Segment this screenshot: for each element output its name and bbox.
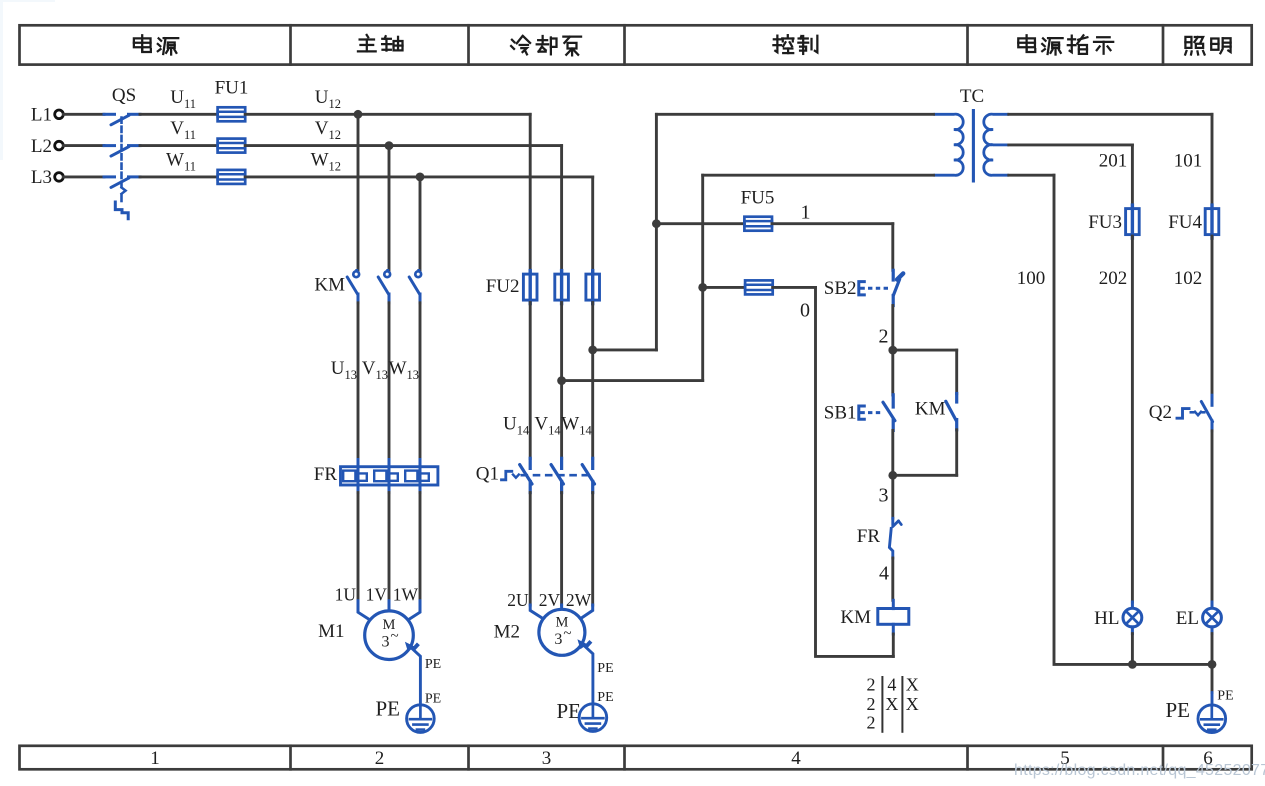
edge tint [0, 0, 3, 160]
wire phase rails [245, 113, 530, 116]
svg-text:FU1: FU1 [215, 78, 249, 99]
svg-text:1: 1 [150, 748, 160, 769]
wire FU2 drops [529, 114, 532, 271]
header band [20, 25, 1252, 64]
svg-text:3: 3 [554, 631, 562, 648]
wire [64, 144, 105, 147]
wire PE pigtail M2 [584, 646, 593, 704]
svg-text:3: 3 [542, 748, 552, 769]
node tap to TC primary top [588, 346, 597, 355]
svg-text:FR: FR [857, 526, 881, 547]
wire [529, 493, 532, 605]
wire 101/102 line [1211, 114, 1214, 207]
wire 100 line [1054, 175, 1132, 664]
svg-text:SB1: SB1 [824, 403, 857, 424]
wire PE pigtail M1 [412, 648, 421, 704]
svg-text:X: X [906, 675, 919, 695]
wire [140, 113, 218, 116]
svg-text:2: 2 [375, 748, 385, 769]
svg-text:FR: FR [314, 464, 338, 485]
wire 201/202 line [1131, 145, 1134, 207]
svg-text:Q1: Q1 [476, 464, 499, 485]
svg-text:~: ~ [563, 626, 571, 642]
svg-text:0: 0 [800, 300, 810, 322]
svg-text:~: ~ [390, 629, 398, 645]
svg-text:FU3: FU3 [1088, 212, 1122, 233]
svg-text:2: 2 [867, 713, 876, 733]
svg-text:TC: TC [960, 86, 984, 107]
svg-text:FU5: FU5 [741, 188, 775, 209]
svg-text:2U: 2U [507, 590, 529, 610]
svg-text:L2: L2 [31, 136, 52, 157]
svg-text:3: 3 [879, 485, 889, 507]
svg-text:201: 201 [1099, 151, 1128, 172]
svg-text:PE: PE [1165, 698, 1190, 722]
svg-text:2: 2 [879, 326, 889, 348]
svg-text:SB2: SB2 [824, 278, 857, 299]
header label 控制 [773, 35, 793, 53]
svg-text:PE: PE [425, 692, 441, 707]
svg-text:1W: 1W [393, 585, 419, 605]
svg-text:2V: 2V [539, 590, 561, 610]
svg-text:2W: 2W [566, 590, 592, 610]
svg-text:PE: PE [1217, 689, 1233, 704]
svg-text:100: 100 [1017, 268, 1046, 289]
svg-text:EL: EL [1176, 608, 1199, 629]
svg-text:4: 4 [879, 563, 889, 585]
wire TC secondary outputs [1009, 113, 1212, 116]
fuse (0 line) [703, 286, 745, 289]
header label 电源指示 [1018, 35, 1035, 52]
svg-text:202: 202 [1099, 268, 1128, 289]
wire [64, 113, 105, 116]
header label 照明 [1185, 37, 1204, 55]
svg-text:L3: L3 [31, 167, 52, 188]
svg-text:1V: 1V [366, 585, 388, 605]
wire [357, 303, 360, 460]
svg-text:FU2: FU2 [486, 276, 520, 297]
svg-text:1U: 1U [335, 585, 357, 605]
wire KM drops [357, 114, 360, 270]
wire [357, 493, 360, 601]
svg-text:PE: PE [597, 690, 613, 705]
wire lamp return rail [1132, 663, 1212, 666]
svg-text:PE: PE [375, 697, 400, 721]
svg-text:X: X [906, 694, 919, 714]
footer band [20, 746, 1252, 770]
svg-text:HL: HL [1094, 608, 1119, 629]
svg-text:4: 4 [791, 748, 801, 769]
wire 0-line down and across [816, 287, 894, 656]
svg-text:PE: PE [425, 657, 441, 672]
svg-text:KM: KM [915, 399, 946, 420]
wire [892, 634, 895, 656]
svg-text:X: X [885, 694, 898, 714]
svg-text:KM: KM [314, 275, 345, 296]
svg-text:Q2: Q2 [1149, 402, 1172, 423]
wire [64, 175, 105, 178]
svg-text:QS: QS [112, 85, 136, 106]
svg-text:KM: KM [840, 607, 871, 628]
svg-text:FU4: FU4 [1168, 212, 1202, 233]
svg-text:https://blog.csdn.net/qq_45252: https://blog.csdn.net/qq_45252077 [1014, 762, 1265, 779]
svg-text:2: 2 [867, 675, 876, 695]
header label 冷却泵 [511, 36, 530, 54]
contact reference table [881, 677, 883, 732]
svg-text:1: 1 [801, 202, 811, 224]
svg-text:2: 2 [867, 694, 876, 714]
svg-text:PE: PE [597, 661, 613, 676]
header label 主轴 [358, 35, 376, 51]
wire [529, 303, 532, 459]
svg-text:M2: M2 [494, 622, 520, 643]
header label 电源 [134, 35, 151, 52]
svg-text:102: 102 [1174, 268, 1203, 289]
svg-text:L1: L1 [31, 105, 52, 126]
node junctions on rails [354, 110, 363, 119]
svg-text:3: 3 [382, 634, 390, 651]
ground PE (lighting) [1211, 664, 1214, 692]
wire control rung down [891, 224, 894, 271]
svg-text:4: 4 [887, 675, 896, 695]
node tap to TC primary bottom [557, 376, 566, 385]
svg-text:101: 101 [1174, 151, 1203, 172]
svg-text:M1: M1 [318, 621, 344, 642]
wire TC primary feeds [656, 113, 933, 116]
svg-text:PE: PE [556, 699, 581, 723]
